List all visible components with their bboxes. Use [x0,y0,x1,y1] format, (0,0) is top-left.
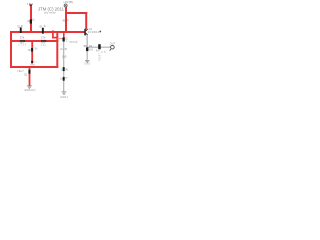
transistor Q1 collector stroke [86,29,88,31]
resistor R2 body on middle rail [20,40,25,42]
wire vertical B x29.4 below rail [29,66,31,86]
svg-text:LEVEL: LEVEL [97,53,99,62]
wire cap stub x63.8 [63,32,65,38]
ground x64 chain [62,92,67,94]
resistor R3 body on middle rail [41,40,46,42]
svg-text:GND1: GND1 [60,96,68,99]
capacitor C1 on input wire [30,19,32,23]
node IN pad [30,4,32,6]
capacitor on top rail at x20 [20,27,22,33]
svg-text:390: 390 [83,45,87,48]
svg-text:GND(0V): GND(0V) [24,89,35,92]
transistor Q1 emitter stroke [86,33,88,35]
out pad circle [111,45,115,49]
wire faint jog extension [58,38,64,40]
svg-text:470nF: 470nF [69,40,78,44]
wire right vertical x57 [56,31,58,68]
svg-text:22nF: 22nF [18,44,27,47]
diode on vertical B [28,70,30,74]
resistor body on chain [63,67,65,71]
capacitor on vertical A [31,48,33,52]
ground at emitter [85,60,89,62]
wire jog horizontal y37.6 [52,37,58,39]
svg-text:22n: 22n [41,44,47,47]
resistor R4 body on emitter [86,47,88,51]
capacitor C2 on x64 chain [63,37,65,41]
svg-text:37k: 37k [41,36,46,40]
svg-text:GND: GND [84,63,90,65]
wire middle rail [10,40,58,42]
cap body low on chain [63,77,65,81]
wire power feed horizontal [65,12,87,14]
out pad tick [110,49,111,51]
wire vertical A x32 [31,40,33,61]
svg-text:1k5: 1k5 [62,56,67,59]
svg-text:+9V(B): +9V(B) [63,0,73,4]
wire bottom rail [10,66,58,68]
wire input vertical [30,6,32,32]
wire collector vertical [85,12,87,29]
x64 chain wire [63,42,65,92]
wire power vertical [65,7,67,32]
svg-text:LB+?: LB+? [17,70,24,73]
wire top rail (base net) [10,31,85,33]
supply +9V symbol [64,4,67,7]
junction blob above bottom rail on vertical A [31,61,33,64]
transistor Q1 base bar [84,29,86,36]
svg-text:GND: GND [30,65,35,67]
svg-text:390: 390 [89,48,94,51]
capacitor C5 output body [98,44,101,49]
svg-text:tiny texter: tiny texter [44,10,56,14]
ground B symbol [27,86,32,88]
wire jog vertical x53 [52,30,54,37]
svg-text:C5: C5 [101,51,106,54]
wire left vertical [10,31,12,68]
svg-text:2N3904: 2N3904 [88,30,100,34]
emitter wire down [86,35,88,60]
junction dot jog [52,31,54,33]
capacitor on top rail at x42 [42,28,44,34]
output wire horizontal [87,46,111,48]
svg-text:37k: 37k [20,36,25,40]
